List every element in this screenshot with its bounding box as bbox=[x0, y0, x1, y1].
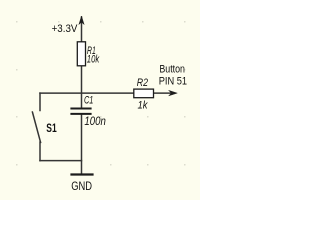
svg-text:+3.3V: +3.3V bbox=[52, 23, 78, 35]
svg-text:Button: Button bbox=[159, 64, 185, 76]
svg-text:R2: R2 bbox=[137, 77, 148, 89]
svg-text:1k: 1k bbox=[138, 100, 148, 112]
svg-text:GND: GND bbox=[71, 179, 92, 193]
svg-text:C1: C1 bbox=[84, 95, 93, 107]
svg-text:S1: S1 bbox=[46, 123, 57, 135]
svg-text:10k: 10k bbox=[87, 54, 100, 66]
svg-text:100n: 100n bbox=[84, 114, 106, 128]
svg-text:PIN 51: PIN 51 bbox=[159, 76, 187, 88]
